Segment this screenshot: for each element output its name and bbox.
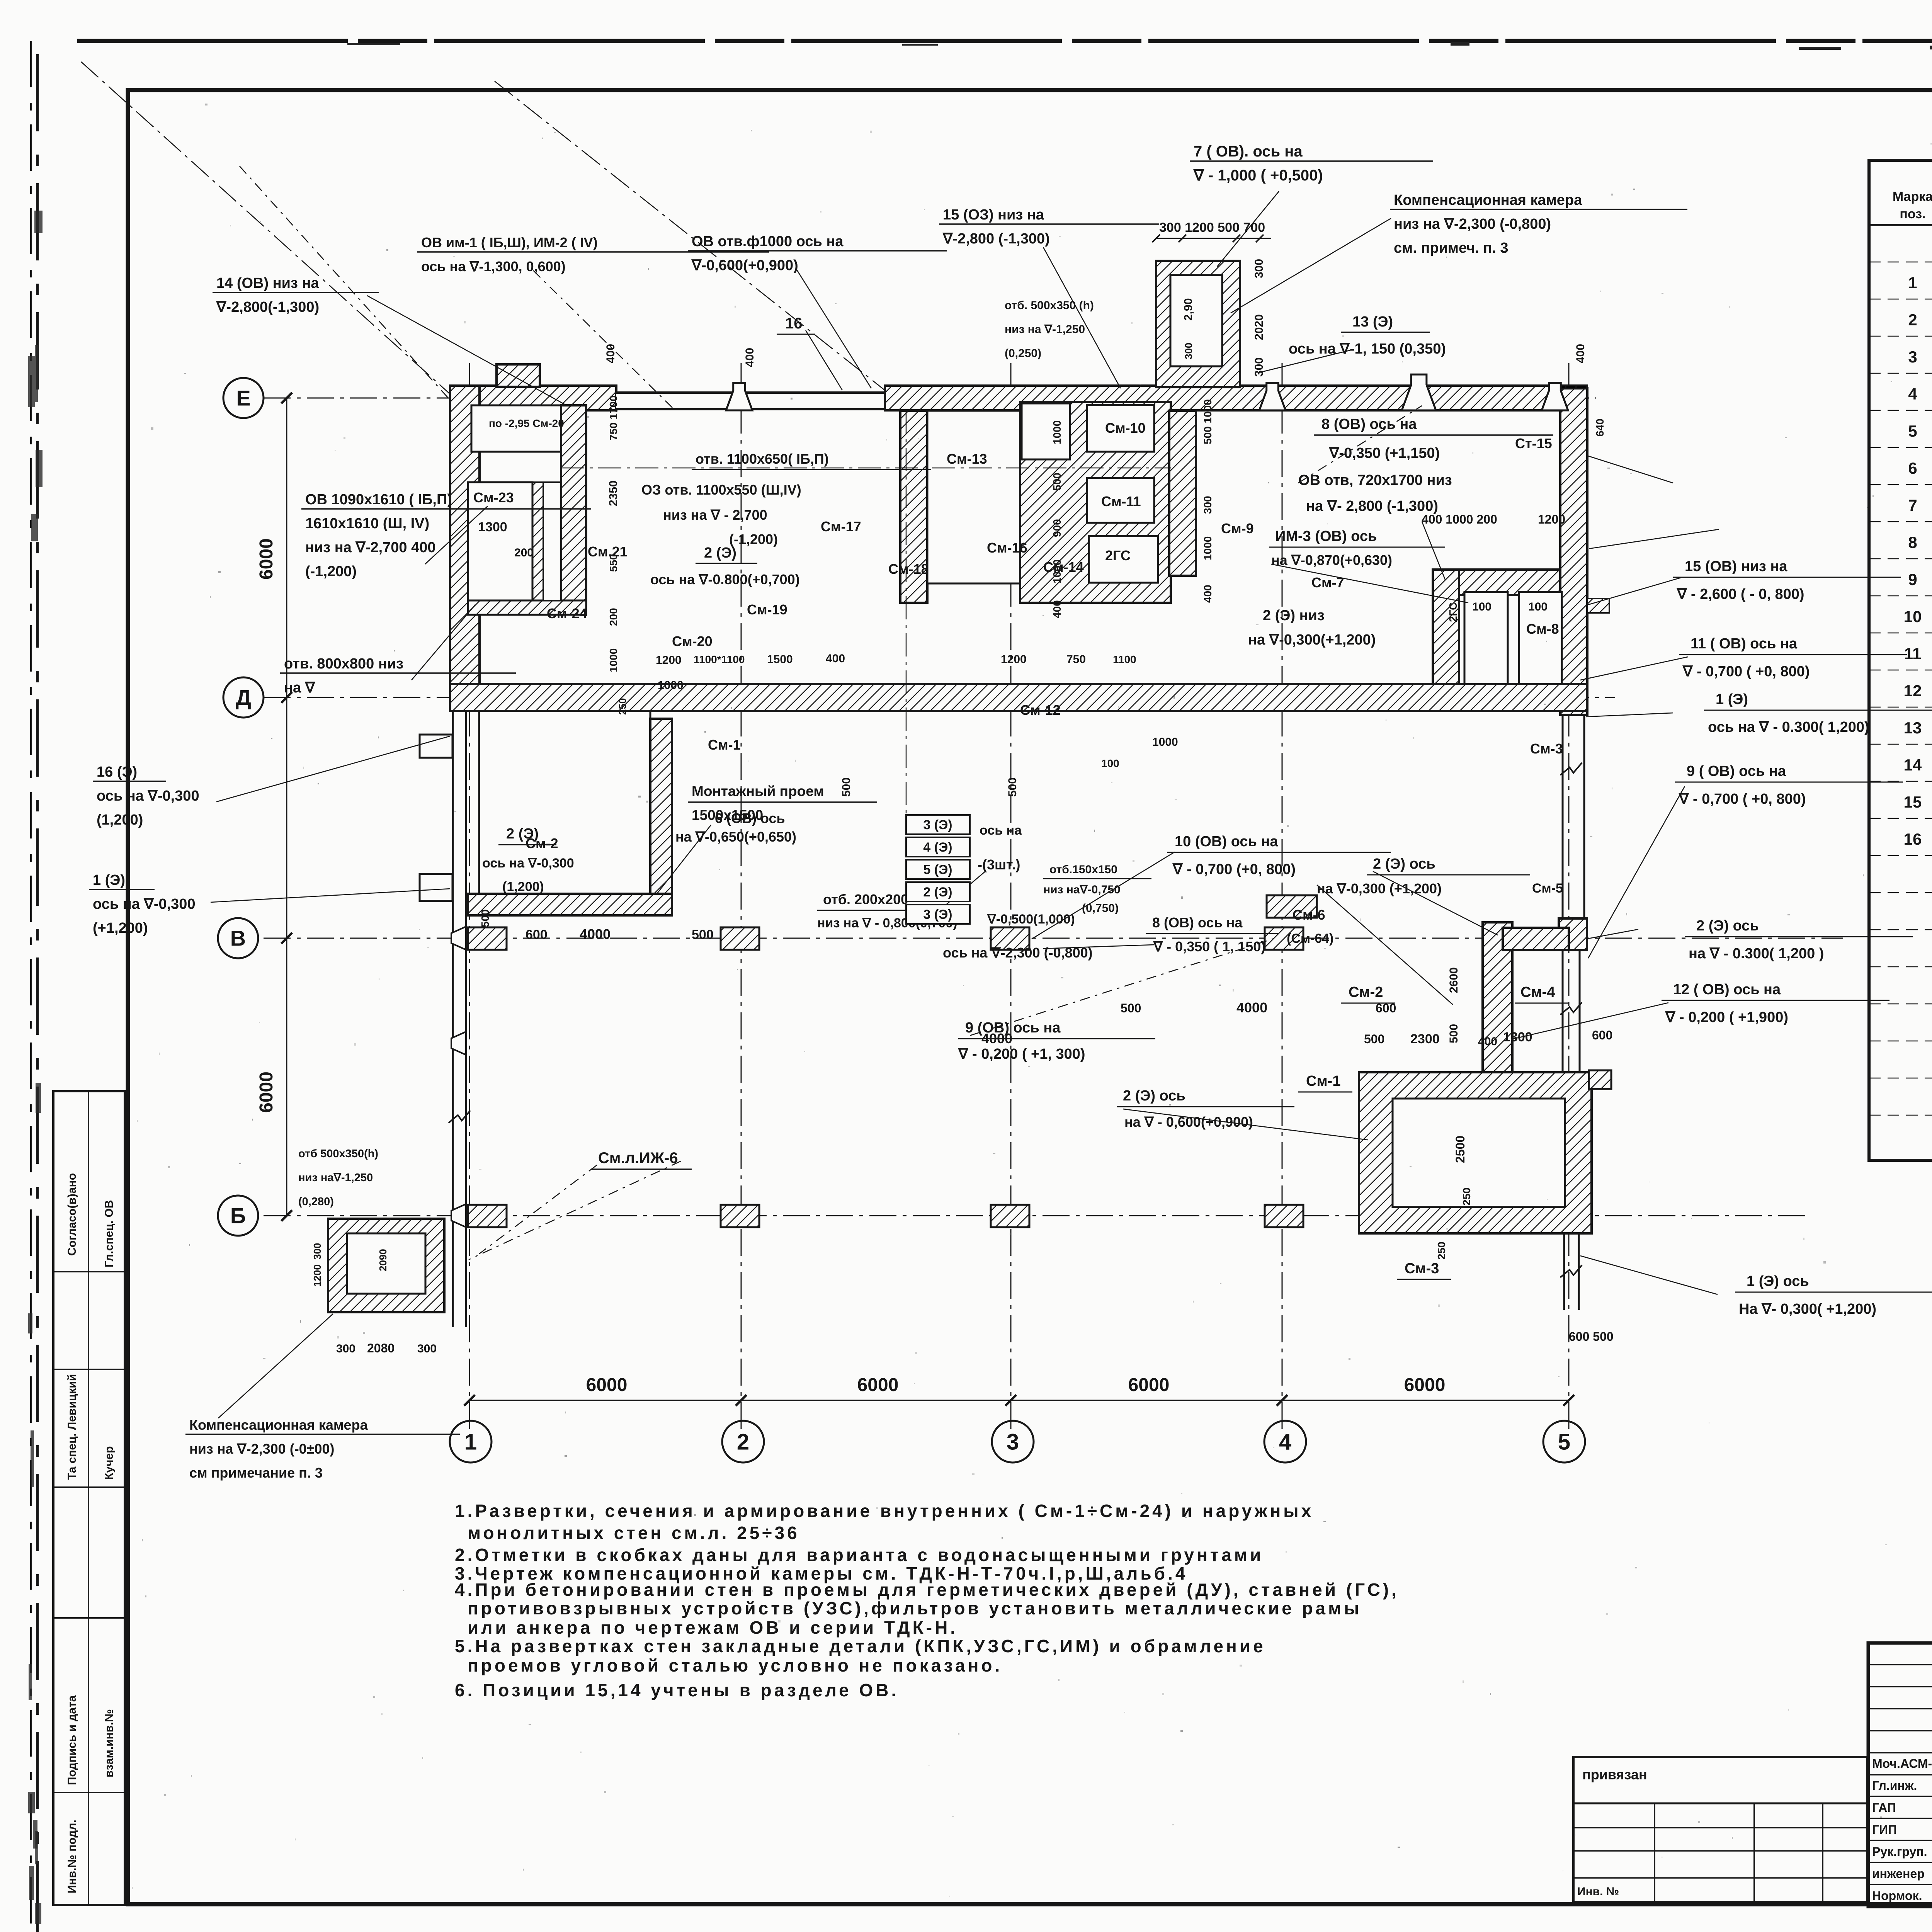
hatched wall cluster (Sm-9..Sm-11) — [1020, 402, 1171, 603]
svg-text:8 (ОВ) ось на: 8 (ОВ) ось на — [1152, 915, 1243, 930]
svg-text:низ на∇-1,250: низ на∇-1,250 — [298, 1172, 373, 1184]
svg-text:на ∇ - 0.300( 1,200 ): на ∇ - 0.300( 1,200 ) — [1689, 946, 1824, 962]
svg-text:ось на ∇-2,300 (-0,800): ось на ∇-2,300 (-0,800) — [943, 945, 1093, 961]
right wall double line above Sm-1 room — [1562, 950, 1564, 1072]
svg-text:1: 1 — [464, 1429, 477, 1454]
room Sm-7 — [1464, 592, 1508, 684]
partition wall right of cluster — [1169, 411, 1196, 576]
svg-text:отб.150х150: отб.150х150 — [1049, 863, 1117, 876]
spec table grid — [1869, 160, 1932, 1160]
svg-text:(1,200): (1,200) — [502, 879, 544, 894]
axis circle V — [218, 918, 258, 958]
svg-text:2.Отметки в скобках даны для: 2.Отметки в скобках даны для варианта с … — [455, 1545, 1264, 1565]
svg-text:2: 2 — [737, 1429, 749, 1454]
right exterior wall upper (axis 5) — [1560, 388, 1587, 715]
svg-text:∇-2,800 (-1,300): ∇-2,800 (-1,300) — [942, 231, 1050, 247]
stacked position boxes — [906, 815, 970, 834]
svg-text:400: 400 — [1478, 1035, 1497, 1048]
wall along axis D — [450, 684, 1587, 711]
svg-text:1 (Э): 1 (Э) — [1716, 691, 1748, 707]
svg-text:1300: 1300 — [478, 520, 507, 534]
svg-text:См-3: См-3 — [1530, 741, 1563, 757]
G-shaped wall vertical — [1433, 570, 1459, 684]
svg-text:∇-0,350 (+1,150): ∇-0,350 (+1,150) — [1329, 445, 1440, 461]
svg-text:200: 200 — [607, 608, 619, 626]
svg-text:400: 400 — [1574, 344, 1587, 363]
svg-text:на ∇-0,870(+0,630): на ∇-0,870(+0,630) — [1271, 552, 1392, 568]
svg-text:2: 2 — [1908, 311, 1917, 329]
svg-text:См-24: См-24 — [547, 605, 587, 621]
svg-text:проемов угловой сталью усло: проемов угловой сталью условно не показа… — [468, 1655, 1002, 1675]
partition wall left of Sm-16 room — [900, 411, 927, 603]
svg-text:1610х1610 (Ш, IV): 1610х1610 (Ш, IV) — [305, 515, 429, 532]
svg-text:ось на ∇-0,300: ось на ∇-0,300 — [97, 788, 199, 804]
svg-text:1 (Э) ось: 1 (Э) ось — [1747, 1273, 1809, 1289]
svg-text:300: 300 — [336, 1342, 355, 1355]
svg-text:12: 12 — [1904, 682, 1922, 700]
left stamp strip — [53, 1091, 125, 1905]
chamber top dim line — [1156, 238, 1271, 239]
left dimension chain — [286, 398, 287, 1216]
opening arrows on left lower wall — [451, 927, 466, 950]
svg-text:4000: 4000 — [1236, 1000, 1267, 1015]
room Sm-16/Sm-18 — [927, 411, 1020, 583]
hatched block at axis V grid 5 — [1559, 918, 1587, 950]
svg-text:См-7: См-7 — [1311, 575, 1344, 590]
svg-text:низ на ∇-2,700 400: низ на ∇-2,700 400 — [305, 539, 436, 556]
svg-text:250: 250 — [1435, 1242, 1447, 1260]
svg-text:6000: 6000 — [857, 1375, 899, 1395]
axis circle E — [223, 378, 264, 418]
svg-text:11: 11 — [1904, 645, 1921, 663]
svg-text:См-10: См-10 — [1105, 420, 1146, 436]
svg-text:∇ - 1,000 ( +0,500): ∇ - 1,000 ( +0,500) — [1193, 167, 1323, 184]
notch on left wall 1 — [420, 735, 452, 758]
svg-text:2 (Э) ось: 2 (Э) ось — [1373, 856, 1435, 872]
svg-text:16: 16 — [1904, 830, 1922, 848]
svg-text:13 (Э): 13 (Э) — [1352, 314, 1393, 330]
svg-text:на ∇ - 0,600(+0,900): на ∇ - 0,600(+0,900) — [1124, 1114, 1253, 1130]
outer left border — [30, 41, 32, 1932]
room strip right of Sm-23 — [543, 482, 561, 600]
svg-text:по -2,95 См-20: по -2,95 См-20 — [489, 417, 564, 429]
svg-text:См-18: См-18 — [888, 561, 929, 577]
svg-text:300: 300 — [1183, 343, 1194, 359]
svg-text:∇ - 0,700 ( +0, 800): ∇ - 0,700 ( +0, 800) — [1682, 663, 1810, 680]
svg-text:250: 250 — [617, 698, 628, 715]
svg-text:300: 300 — [1202, 496, 1214, 514]
svg-text:2600: 2600 — [1447, 967, 1460, 993]
bottom-right room Sm-1/Sm-3 walls — [1359, 1072, 1592, 1233]
svg-text:4: 4 — [1908, 385, 1917, 403]
svg-text:6000: 6000 — [1128, 1375, 1170, 1395]
svg-text:на ∇-0,650(+0,650): на ∇-0,650(+0,650) — [675, 829, 796, 845]
svg-text:ОВ отв.ф1000 ось на: ОВ отв.ф1000 ось на — [692, 233, 844, 250]
svg-text:См-11: См-11 — [1101, 493, 1141, 509]
svg-text:Монтажный проем: Монтажный проем — [692, 783, 824, 799]
svg-text:(+1,200): (+1,200) — [93, 920, 148, 936]
svg-text:500: 500 — [692, 927, 714, 942]
svg-text:6 (ОВ) ось: 6 (ОВ) ось — [715, 810, 785, 826]
svg-text:ось на ∇-0,300: ось на ∇-0,300 — [482, 856, 574, 871]
svg-text:11 ( ОВ) ось на: 11 ( ОВ) ось на — [1690, 636, 1798, 652]
svg-text:500: 500 — [840, 777, 853, 797]
svg-text:500: 500 — [479, 909, 491, 927]
svg-text:на ∇- 2,800 (-1,300): на ∇- 2,800 (-1,300) — [1306, 498, 1438, 514]
svg-text:640: 640 — [1594, 418, 1606, 437]
bottom axis circles 1-5 — [450, 1421, 492, 1463]
svg-text:4.При бетонировании стен в п: 4.При бетонировании стен в проемы для ге… — [455, 1580, 1399, 1600]
bottom dimension chain — [469, 1400, 1569, 1401]
small partition bar in Sm-23 — [532, 482, 543, 600]
svg-text:ось на ∇-1, 150 (0,350): ось на ∇-1, 150 (0,350) — [1289, 341, 1446, 357]
svg-text:∇ - 2,600 ( - 0, 800): ∇ - 2,600 ( - 0, 800) — [1677, 586, 1804, 602]
svg-text:(См-64): (См-64) — [1287, 931, 1334, 946]
svg-text:См-5: См-5 — [1532, 881, 1563, 896]
svg-text:15 (ОЗ) низ на: 15 (ОЗ) низ на — [943, 207, 1044, 223]
svg-text:низ на ∇-1,250: низ на ∇-1,250 — [1005, 323, 1085, 336]
svg-text:на ∇: на ∇ — [284, 680, 316, 696]
room 2GS — [1089, 536, 1158, 583]
svg-text:В: В — [230, 926, 246, 951]
svg-text:3 (Э): 3 (Э) — [923, 907, 952, 922]
svg-text:6: 6 — [1908, 459, 1917, 477]
svg-text:300: 300 — [1253, 259, 1265, 278]
svg-text:4: 4 — [1279, 1429, 1291, 1454]
svg-text:3: 3 — [1007, 1429, 1019, 1454]
svg-text:2500: 2500 — [1453, 1136, 1467, 1163]
svg-text:9 ( ОВ) ось на: 9 ( ОВ) ось на — [1687, 763, 1786, 779]
binding mini table — [1573, 1757, 1867, 1902]
svg-text:2300: 2300 — [1410, 1032, 1440, 1046]
room Sm-8 — [1519, 592, 1562, 684]
svg-text:1100: 1100 — [1113, 653, 1136, 665]
svg-text:5 (Э): 5 (Э) — [923, 862, 952, 877]
svg-text:взам.инв.№: взам.инв.№ — [103, 1709, 116, 1777]
svg-text:или анкера по чертежам ОВ: или анкера по чертежам ОВ и серии ТДК-Н. — [468, 1617, 958, 1638]
svg-text:Кучер: Кучер — [103, 1446, 116, 1480]
svg-text:6. Позиции 15,14 учтены в: 6. Позиции 15,14 учтены в разделе ОВ. — [455, 1680, 899, 1700]
axis circle B — [218, 1196, 258, 1236]
svg-text:Моч.АСМ-1: Моч.АСМ-1 — [1872, 1757, 1932, 1770]
svg-text:2350: 2350 — [607, 480, 620, 506]
svg-text:2ГС: 2ГС — [1447, 602, 1459, 622]
right wall stub at Sm-8 level — [1587, 599, 1609, 613]
svg-text:См-20: См-20 — [672, 633, 713, 649]
svg-text:600: 600 — [526, 927, 548, 942]
svg-text:2 (Э): 2 (Э) — [704, 545, 736, 561]
svg-text:Б: Б — [230, 1204, 246, 1228]
svg-text:2 (Э): 2 (Э) — [923, 885, 952, 900]
svg-text:ось на: ось на — [980, 823, 1022, 838]
room Sm-23 — [468, 482, 532, 600]
svg-text:500: 500 — [1006, 777, 1019, 797]
svg-text:400 1000 200: 400 1000 200 — [1422, 512, 1497, 526]
room Sm-20 (po -2.95) — [471, 405, 561, 452]
wall bar below Sm-23 — [468, 600, 586, 615]
svg-text:1000: 1000 — [1152, 736, 1178, 748]
intermediate axis in hall horizontal — [561, 468, 1171, 469]
svg-text:100: 100 — [1528, 600, 1548, 613]
axis circle D — [223, 677, 264, 718]
svg-text:отб. 200х200: отб. 200х200 — [823, 891, 908, 907]
break marks on double-line walls — [1560, 1002, 1582, 1015]
svg-text:низ на ∇-2,300 (-0±00): низ на ∇-2,300 (-0±00) — [189, 1441, 335, 1457]
svg-text:10 (ОВ) ось на: 10 (ОВ) ось на — [1175, 833, 1278, 850]
svg-text:750 1700: 750 1700 — [607, 395, 619, 440]
vertical wall above bottom-right room — [1483, 922, 1512, 1074]
grid axes vertical dash-dot lines 1-5 — [469, 363, 470, 1430]
svg-text:привязан: привязан — [1582, 1767, 1647, 1782]
svg-text:∇-0,600(+0,900): ∇-0,600(+0,900) — [691, 257, 798, 274]
svg-text:Инв. №: Инв. № — [1577, 1885, 1619, 1898]
svg-text:отв. 1100х650( IБ,П): отв. 1100х650( IБ,П) — [696, 451, 829, 467]
room below axis D left interior — [479, 711, 650, 894]
svg-text:400: 400 — [604, 344, 617, 363]
svg-text:(0,250): (0,250) — [1005, 347, 1041, 360]
svg-text:600: 600 — [1376, 1001, 1396, 1015]
frame top line full width — [128, 88, 1932, 92]
svg-text:1200: 1200 — [311, 1264, 323, 1287]
svg-text:100: 100 — [1472, 600, 1492, 613]
svg-text:ГАП: ГАП — [1872, 1801, 1896, 1815]
svg-text:1500: 1500 — [767, 653, 793, 666]
svg-text:100: 100 — [1101, 757, 1119, 769]
room Sm-10 — [1087, 405, 1154, 452]
svg-text:См-1: См-1 — [1306, 1073, 1340, 1089]
svg-text:низ на ∇ - 2,700: низ на ∇ - 2,700 — [663, 507, 767, 523]
svg-text:13: 13 — [1904, 719, 1922, 737]
svg-text:2,90: 2,90 — [1182, 298, 1195, 321]
svg-text:См-13: См-13 — [947, 451, 987, 467]
svg-text:2 (Э) ось: 2 (Э) ось — [1123, 1088, 1185, 1104]
protrusion above top wall at left — [497, 364, 540, 387]
svg-text:(0,750): (0,750) — [1082, 902, 1119, 915]
svg-text:600: 600 — [1592, 1028, 1612, 1042]
svg-text:∇ - 0,200 ( +1, 300): ∇ - 0,200 ( +1, 300) — [958, 1046, 1085, 1062]
svg-text:ИМ-3 (ОВ) ось: ИМ-3 (ОВ) ось — [1275, 528, 1377, 544]
svg-text:15: 15 — [1904, 793, 1922, 811]
svg-text:На ∇- 0,300( +1,200): На ∇- 0,300( +1,200) — [1739, 1301, 1876, 1317]
svg-text:10: 10 — [1904, 607, 1922, 626]
svg-text:∇ - 0,700 ( +0, 800): ∇ - 0,700 ( +0, 800) — [1679, 791, 1806, 807]
svg-text:1300: 1300 — [1503, 1030, 1532, 1044]
svg-text:3: 3 — [1908, 348, 1917, 366]
svg-text:500: 500 — [1051, 473, 1063, 491]
svg-text:Та спец. Левицкий: Та спец. Левицкий — [66, 1374, 78, 1480]
svg-text:∇-2,800(-1,300): ∇-2,800(-1,300) — [216, 299, 319, 315]
svg-text:инженер: инженер — [1872, 1867, 1925, 1881]
svg-text:2 (Э) ось: 2 (Э) ось — [1696, 918, 1759, 934]
svg-text:14 (ОВ) низ на: 14 (ОВ) низ на — [216, 275, 319, 291]
svg-text:на ∇-0,300(+1,200): на ∇-0,300(+1,200) — [1248, 632, 1376, 648]
outer left border 2 — [36, 54, 39, 1932]
svg-text:3 (Э): 3 (Э) — [923, 818, 952, 832]
svg-text:противовзрывных устройств (УЗ: противовзрывных устройств (УЗС),фильтров… — [468, 1598, 1362, 1618]
svg-text:300: 300 — [311, 1243, 323, 1260]
svg-text:1000: 1000 — [1202, 536, 1214, 560]
svg-text:500: 500 — [1364, 1032, 1384, 1046]
room Sm-11 — [1087, 478, 1154, 523]
svg-text:См-1: См-1 — [708, 737, 741, 753]
svg-text:См-2: См-2 — [1349, 984, 1383, 1000]
svg-text:5: 5 — [1908, 422, 1917, 440]
svg-text:4000: 4000 — [981, 1031, 1012, 1046]
svg-text:См-12: См-12 — [1020, 702, 1061, 718]
svg-text:∇ - 0,200 ( +1,900): ∇ - 0,200 ( +1,900) — [1665, 1009, 1788, 1026]
svg-text:900: 900 — [1051, 519, 1063, 537]
svg-text:2080: 2080 — [367, 1341, 395, 1355]
bottom-left compensation chamber interior — [347, 1233, 425, 1294]
svg-text:9: 9 — [1908, 570, 1917, 588]
right wall stub near Sm-1 — [1589, 1070, 1611, 1089]
bottom wall of lower-left room — [468, 894, 672, 915]
svg-text:1000: 1000 — [658, 679, 684, 692]
notch on left wall 2 — [420, 874, 452, 901]
random speckles — [1240, 1665, 1242, 1667]
svg-text:ось на ∇-0.800(+0,700): ось на ∇-0.800(+0,700) — [650, 571, 800, 587]
svg-text:400: 400 — [743, 348, 756, 367]
svg-text:(-1,200): (-1,200) — [305, 563, 357, 580]
svg-text:400: 400 — [826, 652, 845, 665]
svg-text:Е: Е — [236, 386, 250, 410]
svg-text:600 500: 600 500 — [1569, 1330, 1614, 1344]
svg-text:6000: 6000 — [256, 1071, 277, 1113]
svg-text:См-19: См-19 — [747, 602, 787, 617]
svg-text:отв. 800х800 низ: отв. 800х800 низ — [284, 656, 403, 672]
svg-text:ОВ 1090х1610 ( IБ,П): ОВ 1090х1610 ( IБ,П) — [305, 492, 452, 508]
svg-text:См-9: См-9 — [1221, 520, 1254, 536]
svg-text:15 (ОВ) низ на: 15 (ОВ) низ на — [1685, 558, 1787, 575]
svg-text:550: 550 — [607, 554, 619, 572]
compensation chamber (top) interior — [1170, 275, 1222, 366]
svg-text:ось на ∇-0,300: ось на ∇-0,300 — [93, 896, 196, 912]
svg-text:5: 5 — [1558, 1429, 1570, 1454]
svg-text:Нормок.: Нормок. — [1872, 1889, 1922, 1903]
svg-text:7 ( ОВ). ось на: 7 ( ОВ). ось на — [1194, 143, 1303, 160]
svg-text:4 (Э): 4 (Э) — [923, 840, 952, 855]
opening arrows on top wall — [726, 383, 752, 410]
svg-text:См-16: См-16 — [987, 540, 1027, 556]
column blocks on axis V — [468, 927, 507, 950]
svg-text:7: 7 — [1908, 496, 1917, 514]
svg-text:500: 500 — [1121, 1001, 1141, 1015]
svg-text:1000: 1000 — [1051, 560, 1063, 583]
svg-text:ОВ им-1 ( IБ,Ш), ИМ-2 ( IV): ОВ им-1 ( IБ,Ш), ИМ-2 ( IV) — [421, 235, 598, 250]
svg-text:1200: 1200 — [656, 654, 682, 667]
column blocks on axis B — [468, 1205, 507, 1227]
scan edge blotches — [36, 1083, 41, 1113]
outer top border — [77, 39, 1932, 43]
svg-text:2 (Э): 2 (Э) — [506, 826, 539, 842]
top exterior wall hatched right segment — [885, 386, 1587, 410]
svg-text:Гл.спец. ОВ: Гл.спец. ОВ — [103, 1200, 116, 1267]
svg-text:см. примеч. п. 3: см. примеч. п. 3 — [1394, 240, 1509, 256]
wall fragment Sm-6 above axis V — [1267, 895, 1317, 918]
svg-text:Подпись и дата: Подпись и дата — [66, 1695, 78, 1785]
svg-text:6000: 6000 — [256, 538, 277, 580]
svg-text:Компенсационная камера: Компенсационная камера — [1394, 192, 1582, 208]
svg-text:∇ - 0,350 ( 1, 150): ∇ - 0,350 ( 1, 150) — [1153, 939, 1265, 954]
svg-text:(1,200): (1,200) — [97, 812, 143, 828]
svg-text:Д: Д — [236, 685, 251, 710]
svg-text:отб 500х350(h): отб 500х350(h) — [298, 1148, 378, 1160]
svg-text:ГИП: ГИП — [1872, 1823, 1897, 1837]
svg-text:Марка: Марка — [1893, 189, 1932, 204]
svg-text:-(3шт.): -(3шт.) — [978, 857, 1020, 872]
svg-text:Гл.инж.: Гл.инж. — [1872, 1779, 1917, 1793]
svg-text:1: 1 — [1908, 274, 1917, 292]
svg-text:ОВ отв, 720х1700 низ: ОВ отв, 720х1700 низ — [1298, 472, 1452, 488]
svg-text:(0,280): (0,280) — [298, 1196, 334, 1208]
left exterior wall — [450, 386, 480, 697]
top exterior wall middle plain segment — [616, 391, 885, 409]
svg-text:2020: 2020 — [1253, 314, 1265, 340]
svg-text:16 (Э): 16 (Э) — [97, 764, 137, 780]
svg-text:250: 250 — [1461, 1187, 1473, 1206]
right wall of lower-left room — [650, 719, 672, 915]
G-shaped wall horizontal (Sm-7 area) — [1433, 570, 1560, 595]
svg-text:См.л.ИЖ-6: См.л.ИЖ-6 — [598, 1150, 678, 1167]
svg-text:низ на∇-0,750: низ на∇-0,750 — [1043, 883, 1121, 896]
svg-text:400: 400 — [1202, 585, 1214, 603]
top exterior wall (axis E) hatched left segment — [450, 386, 616, 410]
intermediate axis in hall vertical — [906, 411, 907, 815]
hatched bar on axis V near grid 5 — [1503, 928, 1569, 950]
svg-text:∇ - 0,700 (+0, 800): ∇ - 0,700 (+0, 800) — [1172, 861, 1296, 878]
svg-text:8 (ОВ) ось на: 8 (ОВ) ось на — [1321, 416, 1417, 432]
room Sm-13 — [1022, 403, 1070, 459]
svg-text:12 ( ОВ) ось на: 12 ( ОВ) ось на — [1673, 981, 1781, 998]
right exterior wall middle double-line segment — [1562, 715, 1564, 922]
partition wall right of Sm-23 rooms — [561, 405, 586, 604]
svg-text:ось на ∇-1,300, 0,600): ось на ∇-1,300, 0,600) — [421, 259, 566, 274]
svg-text:8: 8 — [1908, 533, 1917, 551]
compensation chamber (top) walls — [1156, 261, 1240, 387]
svg-text:монолитных стен см.л. 25÷36: монолитных стен см.л. 25÷36 — [468, 1523, 800, 1543]
svg-text:отб. 500х350 (h): отб. 500х350 (h) — [1005, 299, 1094, 312]
svg-text:см примечание п. 3: см примечание п. 3 — [189, 1465, 323, 1481]
svg-text:См-23: См-23 — [473, 490, 514, 505]
svg-text:750: 750 — [1066, 653, 1086, 666]
svg-text:5.На развертках стен закла: 5.На развертках стен закладные детали (К… — [455, 1636, 1266, 1656]
svg-text:9 (ОВ) ось на: 9 (ОВ) ось на — [965, 1020, 1061, 1036]
svg-text:400: 400 — [1051, 600, 1063, 618]
svg-text:Согласо(в)ано: Согласо(в)ано — [66, 1173, 78, 1256]
title block — [1868, 1643, 1932, 1906]
svg-text:См-14: См-14 — [1043, 559, 1084, 575]
bottom-right room interior — [1393, 1099, 1565, 1207]
svg-text:Ст-15: Ст-15 — [1515, 435, 1552, 451]
svg-text:200: 200 — [514, 546, 534, 559]
svg-text:См-8: См-8 — [1526, 621, 1559, 637]
svg-text:2 (Э) низ: 2 (Э) низ — [1263, 607, 1325, 624]
svg-text:6000: 6000 — [586, 1375, 628, 1395]
svg-text:1100*1100: 1100*1100 — [694, 653, 745, 665]
svg-text:См-17: См-17 — [821, 519, 861, 534]
double line below bottom-right room — [1563, 1233, 1565, 1310]
svg-text:300: 300 — [417, 1342, 437, 1355]
svg-text:поз.: поз. — [1900, 207, 1925, 221]
svg-text:1200: 1200 — [1001, 653, 1027, 666]
svg-text:∇-0,500(1,000): ∇-0,500(1,000) — [987, 912, 1075, 927]
svg-text:500: 500 — [1447, 1024, 1460, 1043]
svg-text:1 (Э): 1 (Э) — [93, 872, 125, 888]
svg-text:500 1000: 500 1000 — [1202, 399, 1214, 444]
long diagonal dash-dot top-left — [81, 62, 450, 394]
svg-text:ось на ∇ - 0.300( 1,200): ось на ∇ - 0.300( 1,200) — [1708, 719, 1869, 735]
svg-text:4000: 4000 — [580, 926, 611, 942]
